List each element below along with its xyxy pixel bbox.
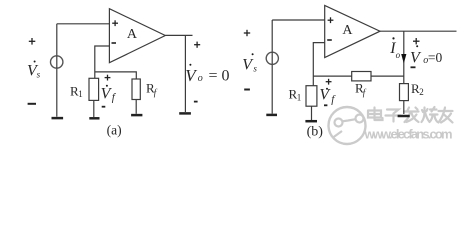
svg-text:(a): (a)	[107, 122, 122, 137]
svg-text:s: s	[253, 63, 257, 73]
svg-text:= 0: = 0	[209, 67, 230, 84]
svg-text:1: 1	[297, 92, 302, 102]
svg-text:(b): (b)	[307, 124, 324, 139]
svg-text:s: s	[37, 69, 41, 79]
svg-text:A: A	[127, 27, 138, 42]
svg-text:o: o	[396, 50, 401, 60]
svg-text:A: A	[342, 23, 353, 38]
svg-text:=0: =0	[428, 50, 443, 65]
svg-text:1: 1	[78, 89, 83, 99]
svg-text:www.elecfans.com: www.elecfans.com	[364, 127, 453, 142]
svg-text:o: o	[198, 73, 203, 84]
svg-text:2: 2	[419, 87, 424, 97]
